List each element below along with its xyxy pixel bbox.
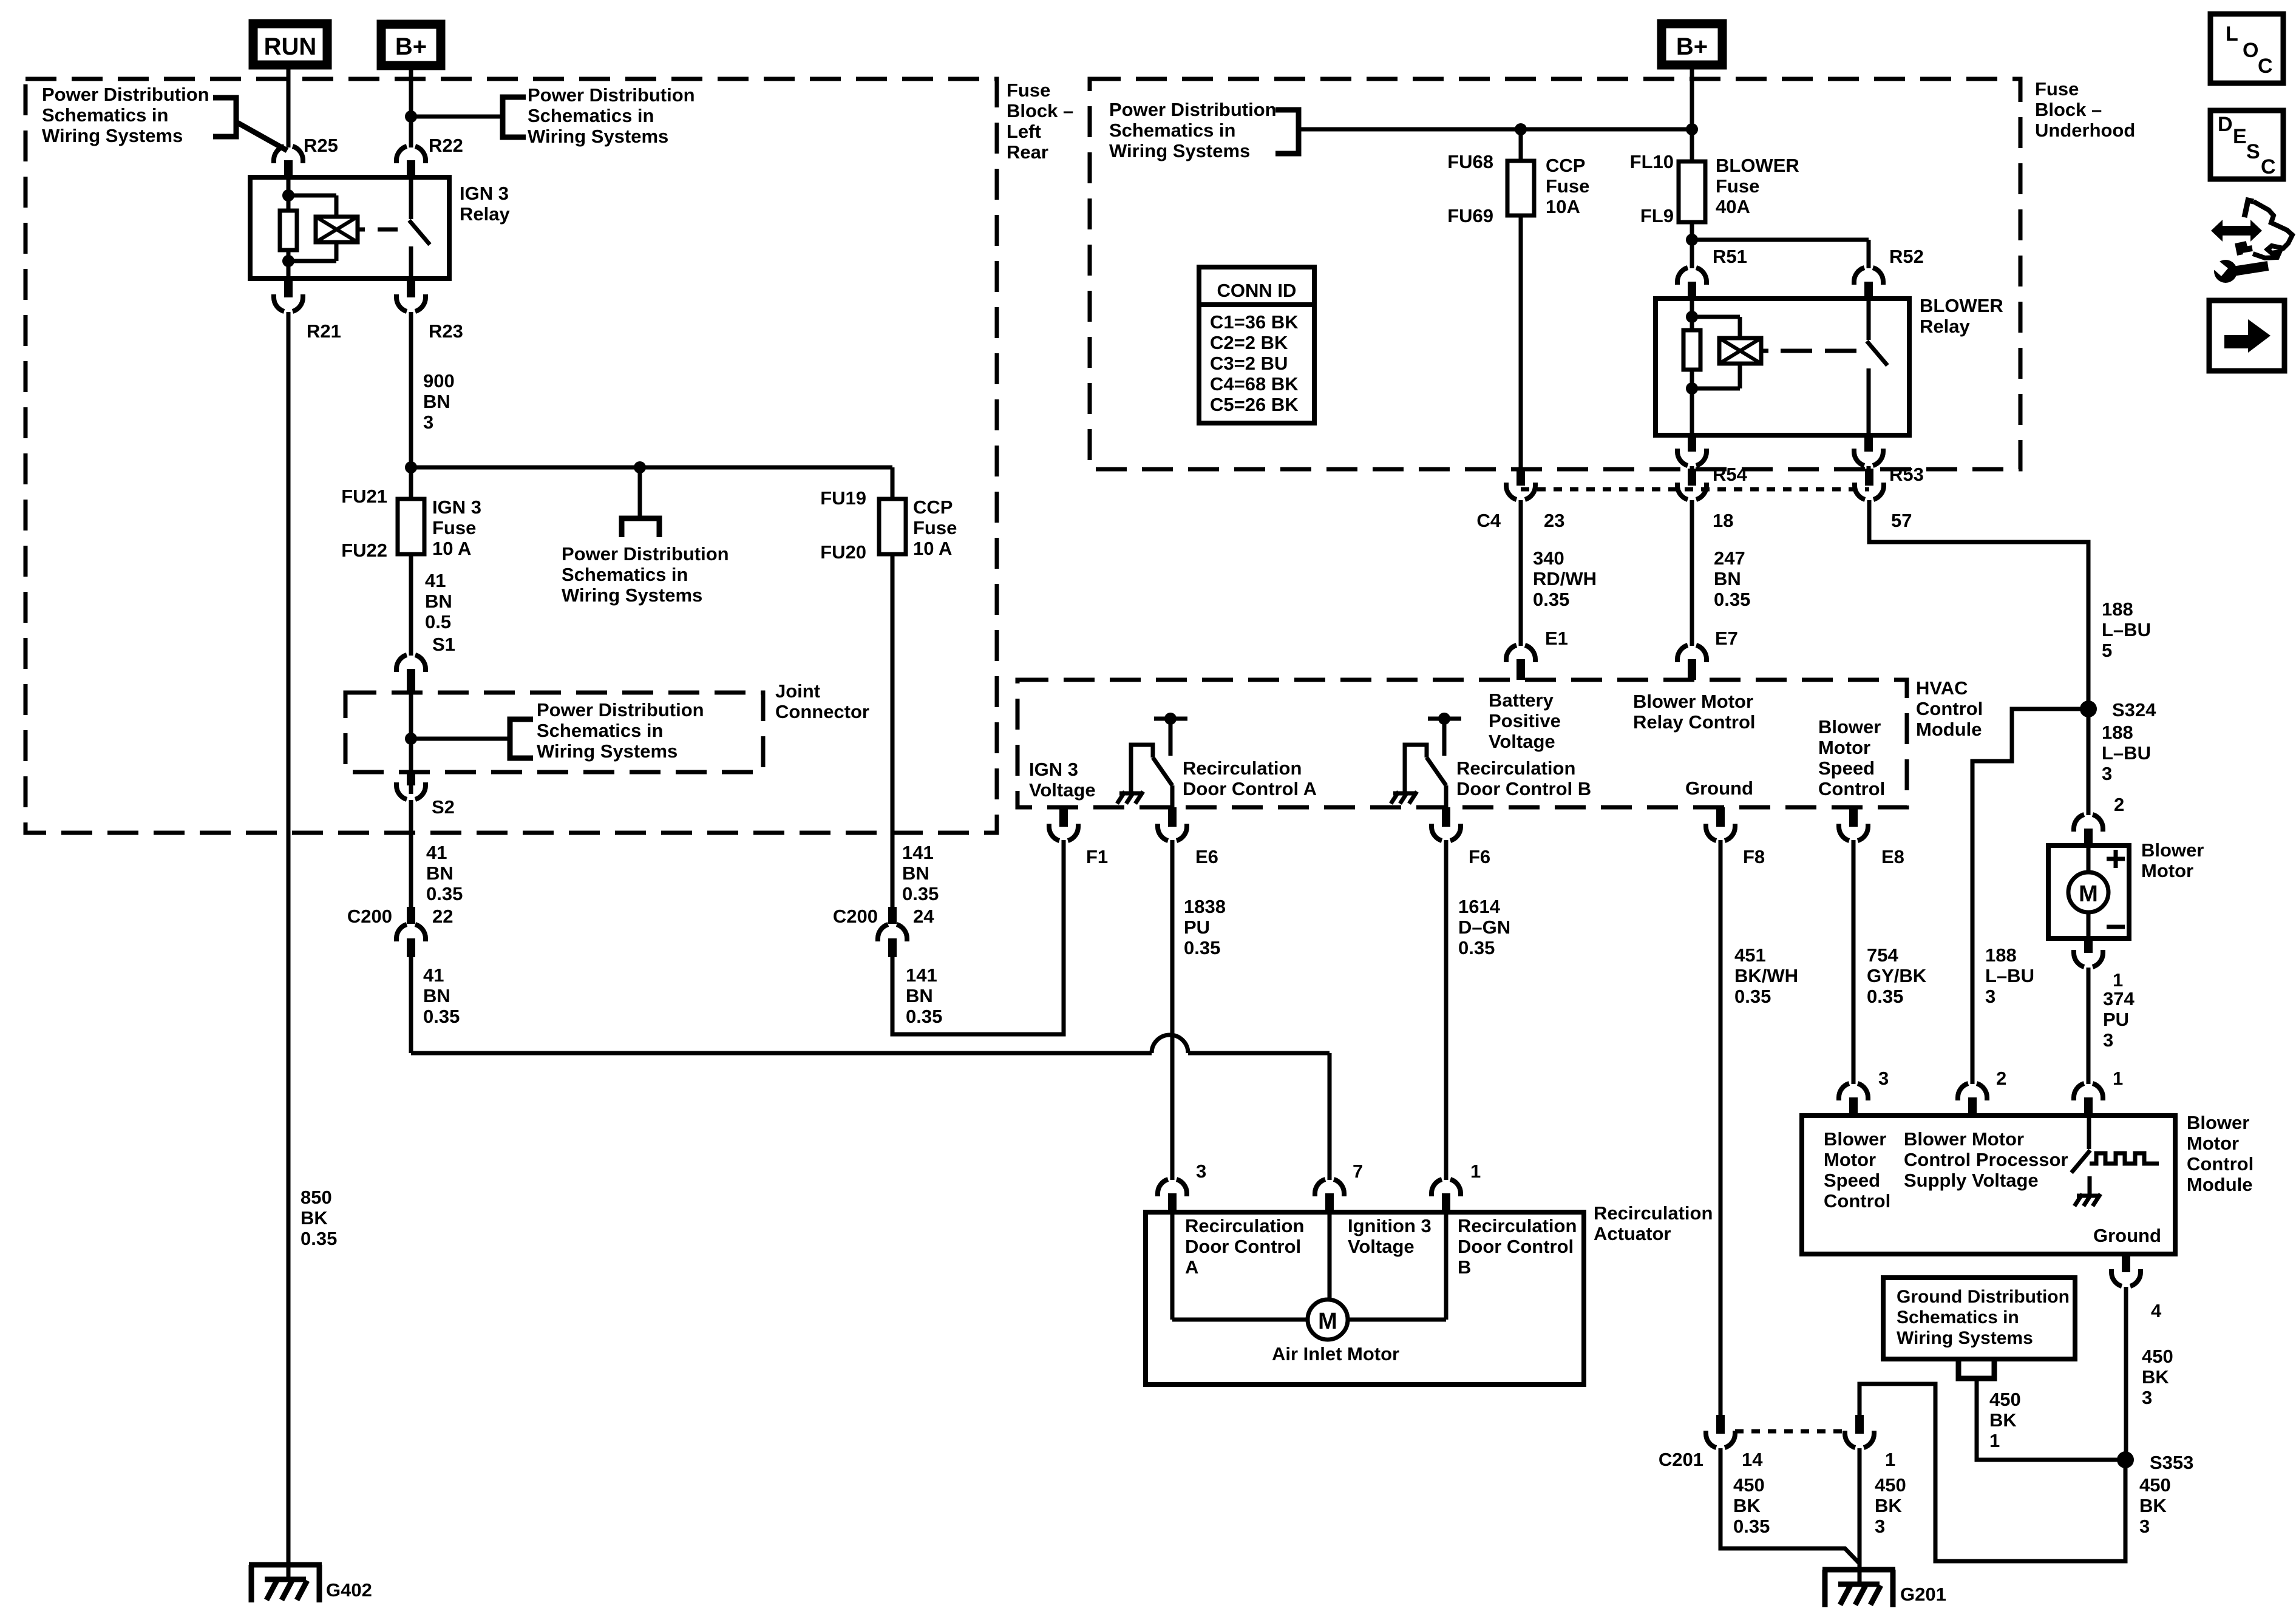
- blower motor control module box: [1802, 1116, 2175, 1254]
- connector C200 cavity 24: [878, 924, 907, 941]
- relay BLOWER box: [1656, 299, 1909, 435]
- connector pin 1 (control module): [2074, 1083, 2103, 1100]
- bracket below ground distribution: [1958, 1361, 1994, 1378]
- svg-text:RUN: RUN: [264, 33, 317, 60]
- wire FU22 to S1: [409, 554, 413, 656]
- svg-text:24: 24: [913, 906, 934, 927]
- wire 57 to S324 (188 L-BU 5): [1869, 500, 2088, 815]
- svg-text:RecirculationDoor Control B: RecirculationDoor Control B: [1456, 758, 1591, 799]
- connector 4 (control module ground): [2111, 1269, 2141, 1286]
- wire R54 to 18: [1690, 466, 1694, 470]
- wire B+ to R22: [409, 70, 413, 147]
- svg-text:M: M: [1318, 1309, 1337, 1334]
- wire S324 to blower motor 2: [2087, 709, 2091, 815]
- relay BLOWER coil return: [1690, 370, 1694, 435]
- svg-text:L: L: [2226, 22, 2238, 46]
- connector C4 cavity 57: [1855, 483, 1884, 500]
- wire F6 to pin 1 (1614 D-GN): [1444, 840, 1449, 1180]
- recirculation actuator box: [1146, 1212, 1584, 1385]
- svg-text:1: 1: [2113, 1068, 2123, 1089]
- svg-text:Blower MotorRelay Control: Blower MotorRelay Control: [1633, 691, 1756, 733]
- connector pin 3 (control module): [1839, 1083, 1868, 1100]
- relay IGN 3 coil return: [287, 250, 291, 279]
- svg-text:Ground: Ground: [2093, 1225, 2161, 1246]
- connector E8: [1839, 824, 1868, 841]
- relay IGN 3 coil-switch dashed link: [378, 228, 398, 232]
- control module switch ground: [2077, 1194, 2100, 1198]
- connector 2 (blower motor): [2074, 815, 2103, 832]
- wire to bracket: [411, 115, 501, 119]
- svg-text:CONN ID: CONN ID: [1217, 280, 1297, 301]
- wire C201-14 to G201: [1720, 1448, 1860, 1564]
- svg-text:C201: C201: [1659, 1449, 1703, 1470]
- svg-text:R54: R54: [1713, 464, 1748, 485]
- connector C201 cavity 1: [1845, 1431, 1874, 1448]
- svg-text:C4: C4: [1476, 510, 1501, 531]
- svg-text:RecirculationDoor Control A: RecirculationDoor Control A: [1183, 758, 1317, 799]
- HVAC recirculation B switch ground: [1393, 792, 1416, 796]
- svg-text:Ground: Ground: [1685, 778, 1753, 799]
- wire R53 to 57: [1867, 466, 1871, 470]
- wire E8 to pin 3 (754 GY/BK): [1852, 840, 1856, 1084]
- svg-text:22: 22: [432, 906, 453, 927]
- svg-text:FU19: FU19: [820, 487, 866, 509]
- svg-text:3: 3: [1878, 1068, 1889, 1089]
- HVAC battery node B: [1428, 717, 1461, 721]
- connector C4 dotted gang line: [1521, 487, 1869, 492]
- svg-text:R52: R52: [1889, 246, 1924, 267]
- HVAC recirculation B switch: [1405, 745, 1427, 792]
- connector R21: [274, 294, 303, 311]
- svg-text:O: O: [2243, 39, 2258, 62]
- wire R23 down (900 BN 3): [409, 312, 413, 499]
- power terminal B+ (left): [381, 24, 441, 66]
- connector C200 cavity 22: [396, 924, 426, 941]
- ground distribution note box: [1883, 1278, 2075, 1359]
- wire S324 branch to module pin 2: [1972, 709, 2088, 1084]
- svg-text:S353: S353: [2150, 1452, 2193, 1473]
- connector pin 2 (control module): [1958, 1083, 1987, 1100]
- connector pin 7 (actuator): [1315, 1179, 1344, 1196]
- svg-text:R51: R51: [1713, 246, 1747, 267]
- connector C201 cavity 14: [1706, 1431, 1735, 1448]
- svg-text:G402: G402: [326, 1579, 372, 1601]
- connector pin 1 (actuator): [1432, 1179, 1461, 1196]
- svg-text:1: 1: [1470, 1161, 1481, 1182]
- svg-text:18: 18: [1713, 510, 1733, 531]
- relay IGN 3 coil: [316, 217, 358, 242]
- svg-text:1: 1: [1885, 1449, 1895, 1470]
- node joint connector tap: [405, 733, 417, 745]
- wire FU68 feed: [1519, 129, 1523, 161]
- svg-text:R23: R23: [429, 320, 463, 342]
- svg-text:7: 7: [1353, 1161, 1363, 1182]
- svg-text:CCPFuse10 A: CCPFuse10 A: [913, 497, 957, 559]
- wire FU20 to C200-24: [891, 554, 895, 907]
- control module pwm wave: [2090, 1153, 2159, 1164]
- wire FU69 to C4-23: [1519, 215, 1523, 469]
- svg-text:C1=36 BKC2=2 BKC3=2 BUC4=68 BK: C1=36 BKC2=2 BKC3=2 BUC4=68 BKC5=26 BK: [1210, 311, 1299, 415]
- connector S1: [396, 655, 426, 672]
- svg-text:4: 4: [2151, 1300, 2162, 1321]
- svg-text:E6: E6: [1195, 846, 1218, 867]
- svg-text:F8: F8: [1743, 846, 1765, 867]
- wire 18 to E7 (247 BN): [1690, 500, 1694, 646]
- svg-text:F1: F1: [1086, 846, 1108, 867]
- connector R53: [1854, 449, 1883, 466]
- wire branch to note bracket: [638, 467, 642, 518]
- svg-text:R22: R22: [429, 135, 463, 156]
- connector F1: [1049, 824, 1078, 841]
- fuse FL10/FL9 BLOWER: [1679, 161, 1705, 222]
- wire R21 to G402 (850 BK): [287, 312, 291, 1565]
- relay IGN 3 coil feed wire: [287, 177, 291, 211]
- air inlet motor wiring: [1170, 1212, 1175, 1320]
- connector E7: [1677, 645, 1707, 662]
- wire C4-23 to E1 (340 RD/WH): [1519, 500, 1523, 646]
- wire ground distribution to S353 (450 BK 1): [1977, 1378, 2125, 1460]
- blower motor minus: [2107, 925, 2125, 929]
- fuse FU21/FU22 IGN 3: [398, 499, 424, 554]
- splice S324: [2080, 700, 2097, 717]
- svg-text:E1: E1: [1545, 628, 1568, 649]
- node FU68 tap: [1515, 123, 1527, 135]
- svg-text:BlowerMotorControlModule: BlowerMotorControlModule: [2187, 1112, 2254, 1195]
- HVAC control module dashed boundary: [1017, 680, 1907, 807]
- bracket to note (top left): [213, 98, 236, 137]
- svg-text:R25: R25: [304, 135, 338, 156]
- wire S353 to C201-1: [1860, 1384, 2125, 1561]
- ground G402: [249, 1562, 322, 1568]
- svg-text:S324: S324: [2112, 699, 2156, 720]
- wire through joint connector: [409, 693, 413, 794]
- wire joint connector tap: [411, 737, 509, 741]
- fuse block left rear dashed boundary: [25, 79, 997, 833]
- connector C4 cavity 23: [1506, 483, 1535, 500]
- svg-text:23: 23: [1544, 510, 1564, 531]
- fuse block underhood dashed boundary: [1090, 79, 2020, 469]
- svg-text:Air Inlet Motor: Air Inlet Motor: [1272, 1343, 1399, 1364]
- wire B+ right down: [1690, 69, 1694, 161]
- wire FU19 feed: [891, 467, 895, 499]
- svg-text:FU21: FU21: [341, 486, 387, 507]
- conn id table: [1199, 267, 1314, 423]
- svg-text:E: E: [2233, 125, 2247, 148]
- svg-text:C: C: [2258, 55, 2273, 78]
- svg-text:B+: B+: [395, 33, 427, 60]
- wire FL9 junction: [1690, 222, 1694, 268]
- svg-text:FU20: FU20: [820, 541, 866, 563]
- node B+ branch: [405, 110, 417, 123]
- wire C200-24 to F1: [892, 840, 1064, 1034]
- relay IGN 3 switch: [409, 177, 413, 219]
- power terminal RUN: [253, 24, 327, 65]
- fuse FU19/FU20 CCP: [879, 499, 906, 554]
- fuse FU68/FU69 CCP: [1507, 161, 1534, 215]
- svg-text:B+: B+: [1676, 33, 1708, 60]
- svg-text:S1: S1: [432, 634, 455, 655]
- svg-text:FL10: FL10: [1630, 151, 1674, 172]
- bracket to note (underhood): [1275, 110, 1299, 154]
- svg-text:C200: C200: [347, 906, 392, 927]
- HVAC recirculation A switch: [1131, 745, 1153, 792]
- connector R25: [274, 146, 303, 163]
- svg-text:G201: G201: [1900, 1584, 1946, 1605]
- bracket to note (fuse feed): [622, 518, 659, 537]
- bracket to note (B+ branch): [503, 97, 526, 137]
- wire underhood feed: [1299, 127, 1692, 132]
- blower motor plus: [2107, 857, 2125, 861]
- svg-text:14: 14: [1742, 1449, 1763, 1470]
- wire pin 4 to S353 (450 BK 3): [2124, 1287, 2128, 1460]
- ground G201: [1822, 1567, 1895, 1573]
- relay IGN 3 resistor: [280, 211, 297, 250]
- svg-text:M: M: [2079, 881, 2098, 907]
- svg-text:FL9: FL9: [1640, 205, 1674, 226]
- svg-text:3: 3: [1196, 1161, 1206, 1182]
- connector E1: [1506, 645, 1535, 662]
- motor M (air inlet): [1308, 1300, 1348, 1340]
- relay BLOWER coil-switch dashed link: [1781, 349, 1812, 353]
- wire RUN to R25: [287, 69, 291, 147]
- HVAC recirculation A switch ground: [1119, 792, 1143, 796]
- splice S353: [2117, 1451, 2134, 1468]
- control module switch: [2087, 1116, 2091, 1149]
- svg-text:E8: E8: [1881, 846, 1904, 867]
- connector R54: [1677, 449, 1707, 466]
- svg-text:S2: S2: [432, 796, 455, 818]
- svg-text:E7: E7: [1715, 628, 1738, 649]
- connector R23: [396, 294, 426, 311]
- icon forward arrow box: [2209, 300, 2284, 371]
- svg-text:C: C: [2261, 155, 2276, 178]
- blower motor box: [2048, 846, 2129, 938]
- wire C200-22 to recirculation actuator pin 7: [411, 1051, 1152, 1056]
- connector R51: [1677, 268, 1707, 285]
- power terminal B+ (right): [1662, 24, 1722, 65]
- svg-text:IGN 3Relay: IGN 3Relay: [460, 183, 510, 225]
- connector F6: [1432, 824, 1461, 841]
- HVAC battery node A: [1154, 717, 1187, 721]
- relay IGN 3 box: [250, 177, 449, 279]
- node branch to note: [634, 461, 646, 473]
- wire E6 to pin 3 (1838 PU): [1170, 840, 1175, 1180]
- wire S2 to C200-22: [409, 800, 413, 907]
- svg-text:57: 57: [1891, 510, 1912, 531]
- connector F8: [1706, 824, 1735, 841]
- svg-text:FU22: FU22: [341, 540, 387, 561]
- wire C200-22 down: [409, 957, 413, 1053]
- relay BLOWER switch: [1867, 299, 1871, 340]
- wire F8 down (451 BK/WH): [1719, 840, 1723, 1415]
- svg-text:1: 1: [2113, 969, 2123, 991]
- node B+ underhood junction: [1686, 123, 1698, 135]
- blower motor internal wires: [2087, 846, 2091, 872]
- svg-text:2: 2: [1996, 1068, 2006, 1089]
- icon DESC box: [2210, 110, 2283, 179]
- connector R22: [396, 146, 426, 163]
- connector C4 cavity 18: [1677, 483, 1707, 500]
- connector C201 dotted gang line: [1735, 1429, 1845, 1434]
- relay BLOWER coil feed: [1690, 299, 1694, 330]
- svg-text:BatteryPositiveVoltage: BatteryPositiveVoltage: [1489, 690, 1561, 752]
- svg-text:FU68: FU68: [1447, 151, 1493, 172]
- svg-text:C200: C200: [833, 906, 878, 927]
- svg-text:S: S: [2246, 140, 2260, 163]
- node fuse feed split: [405, 461, 417, 473]
- svg-text:F6: F6: [1469, 846, 1490, 867]
- relay BLOWER coil: [1719, 338, 1761, 364]
- icon shop manual hand: [2211, 220, 2262, 242]
- connector S2: [396, 782, 426, 799]
- wire C201-1 to G201: [1858, 1448, 1862, 1584]
- svg-text:D: D: [2218, 113, 2233, 136]
- connector E6: [1158, 824, 1187, 841]
- relay BLOWER resistor: [1683, 330, 1700, 370]
- wire fuse feed horizontal: [411, 466, 892, 470]
- bracket to note (joint connector): [510, 719, 533, 758]
- svg-text:R21: R21: [307, 320, 341, 342]
- motor M (blower): [2068, 872, 2108, 912]
- connector R52: [1854, 268, 1883, 285]
- svg-text:2: 2: [2114, 794, 2124, 815]
- connector 1 (blower motor): [2074, 950, 2103, 967]
- svg-text:FU69: FU69: [1447, 205, 1493, 226]
- wire blower motor to module pin 1 (374 PU): [2087, 968, 2091, 1084]
- svg-text:R53: R53: [1889, 464, 1924, 485]
- joint connector dashed box: [345, 693, 763, 772]
- icon LOC box: [2210, 14, 2283, 83]
- wire FL9 to R52: [1692, 238, 1869, 242]
- connector pin 3 (actuator): [1158, 1179, 1187, 1196]
